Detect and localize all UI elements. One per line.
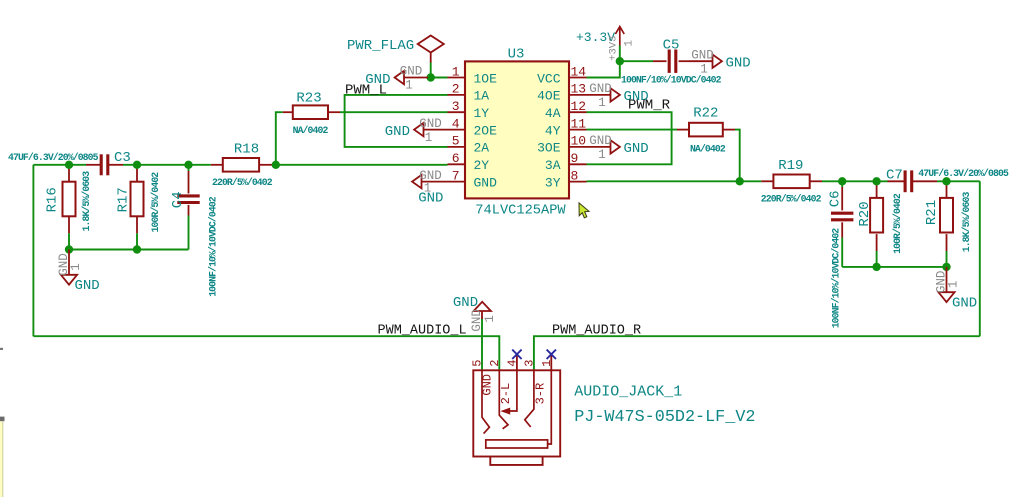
jack sleeve bar <box>486 440 548 448</box>
svg-text:220R/5%/0402: 220R/5%/0402 <box>761 194 822 205</box>
resistor R16 <box>63 182 76 217</box>
svg-text:2-L: 2-L <box>499 383 513 405</box>
svg-text:8: 8 <box>571 168 579 183</box>
U3 pin 2 stub <box>448 94 466 96</box>
junction C3/R16 <box>65 161 73 169</box>
svg-text:R19: R19 <box>778 158 803 174</box>
wire R16 bottom lead <box>68 216 70 233</box>
U3 pin 10 stub <box>569 146 587 148</box>
junction R21 gnd <box>942 263 950 271</box>
resistor R18 <box>223 158 259 172</box>
svg-text:3: 3 <box>452 99 460 114</box>
wire left gnd bus <box>69 249 189 251</box>
ground symbol left bus <box>68 250 70 275</box>
svg-text:100R/5%/0402: 100R/5%/0402 <box>150 172 161 233</box>
svg-text:R22: R22 <box>693 105 718 121</box>
wire C6 branch top <box>841 181 843 187</box>
junction pin1 gnd <box>427 73 435 81</box>
jack switch contact pin4 with arrow <box>510 370 517 411</box>
svg-text:1: 1 <box>425 131 433 145</box>
svg-text:47UF/6.3V/20%/0805: 47UF/6.3V/20%/0805 <box>8 152 99 163</box>
svg-text:GND: GND <box>589 82 612 96</box>
junction C6 top <box>838 177 846 185</box>
svg-text:1OE: 1OE <box>474 71 498 86</box>
svg-text:GND: GND <box>75 278 100 294</box>
svg-text:220R/5%/0402: 220R/5%/0402 <box>212 177 273 188</box>
capacitor C5 <box>668 50 671 73</box>
junction R23/R18 <box>272 161 280 169</box>
svg-text:1Y: 1Y <box>474 106 490 121</box>
ground symbol pin7 <box>422 181 448 183</box>
U3 pin 13 stub <box>569 94 587 96</box>
wire PWM_AUDIO_R run <box>534 336 980 370</box>
U3 pin 1 stub <box>448 77 466 79</box>
svg-text:4OE: 4OE <box>537 89 561 104</box>
svg-text:11: 11 <box>571 116 587 131</box>
ground symbol jack pin5 <box>474 302 491 311</box>
power flag PWR_FLAG <box>418 36 444 53</box>
wire R21 top lead <box>946 181 948 198</box>
capacitor C3 <box>100 154 103 175</box>
svg-text:NA/0402: NA/0402 <box>293 125 329 136</box>
wire VCC pin14 to +3.3V <box>587 61 620 77</box>
svg-text:R21: R21 <box>924 200 940 225</box>
wire PWM_AUDIO_L run <box>33 336 499 370</box>
svg-text:13: 13 <box>571 82 587 97</box>
resistor R23 <box>293 105 328 119</box>
wire pin8 to R19 <box>587 180 762 182</box>
svg-text:1: 1 <box>452 64 460 79</box>
wire C5 to GND <box>679 60 689 62</box>
junction C4 top <box>184 161 192 169</box>
svg-text:GND: GND <box>365 72 390 88</box>
wire C3 to R18 <box>109 164 123 166</box>
wire R20 top lead <box>876 181 878 198</box>
ground symbol pin13 <box>587 94 611 96</box>
junction R16 gnd <box>65 245 73 253</box>
svg-text:PWM_AUDIO_L: PWM_AUDIO_L <box>378 324 467 339</box>
svg-text:C3: C3 <box>114 150 131 166</box>
svg-text:1.8K/5%/0603: 1.8K/5%/0603 <box>81 171 92 232</box>
svg-text:R16: R16 <box>45 187 61 212</box>
svg-text:C4: C4 <box>170 191 186 208</box>
svg-text:4: 4 <box>505 360 519 367</box>
svg-text:4Y: 4Y <box>545 123 561 138</box>
ground symbol pin1 <box>404 77 428 79</box>
wire C4 bottom lead <box>188 205 190 216</box>
svg-text:9: 9 <box>571 151 579 166</box>
junction R17 top <box>133 161 141 169</box>
svg-text:PWR_FLAG: PWR_FLAG <box>347 38 414 54</box>
svg-text:4A: 4A <box>545 106 561 121</box>
svg-text:1: 1 <box>624 40 636 47</box>
svg-text:C7: C7 <box>886 167 903 183</box>
U3 pin 4 stub <box>448 129 466 131</box>
svg-text:47UF/6.3V/20%/0805: 47UF/6.3V/20%/0805 <box>918 168 1009 179</box>
wire R20 bottom lead <box>876 234 878 251</box>
svg-text:GND: GND <box>474 175 498 190</box>
svg-text:10: 10 <box>571 134 587 149</box>
svg-text:R17: R17 <box>116 187 132 212</box>
svg-text:GND: GND <box>418 191 443 207</box>
resistor R17 <box>131 182 144 217</box>
edge artifact mark 2 <box>0 417 5 422</box>
svg-text:1A: 1A <box>474 89 490 104</box>
svg-text:1: 1 <box>69 263 83 271</box>
wire R21 bottom lead <box>946 234 948 251</box>
connector J jack body <box>473 370 560 456</box>
resistor R20 <box>870 198 883 233</box>
capacitor C6 <box>831 212 853 215</box>
svg-text:1: 1 <box>598 96 606 110</box>
svg-text:PWM_AUDIO_R: PWM_AUDIO_R <box>552 324 641 339</box>
junction R20 gnd <box>872 263 880 271</box>
svg-text:3Y: 3Y <box>545 175 561 190</box>
svg-text:C6: C6 <box>827 190 843 207</box>
jack tip lever pin2 <box>499 370 508 429</box>
svg-text:3: 3 <box>522 360 536 367</box>
U3 pin 5 stub <box>448 146 466 148</box>
svg-text:GND: GND <box>726 56 751 72</box>
wire PWM_L net pin2-pin5 <box>345 95 448 147</box>
svg-text:GND: GND <box>691 48 714 62</box>
jack pin1 internal link <box>548 370 552 444</box>
capacitor C7 <box>904 170 907 192</box>
svg-text:+3V3: +3V3 <box>608 36 620 61</box>
wire pin1 to GND junction <box>428 77 448 79</box>
svg-text:3A: 3A <box>545 158 561 173</box>
svg-text:1.8K/5%/0603: 1.8K/5%/0603 <box>961 192 972 253</box>
power symbol +3.3V <box>619 46 621 62</box>
svg-text:VCC: VCC <box>537 71 561 86</box>
svg-text:100NF/10%/10VDC/0402: 100NF/10%/10VDC/0402 <box>208 196 219 297</box>
svg-text:2A: 2A <box>474 141 490 156</box>
junction +3.3V <box>616 57 624 65</box>
svg-text:GND: GND <box>470 309 484 332</box>
resistor R21 <box>940 198 953 233</box>
junction R17 gnd <box>133 245 141 253</box>
svg-text:12: 12 <box>571 99 587 114</box>
jack pin 4 <box>516 354 518 370</box>
junction R22/pin8 <box>736 177 744 185</box>
svg-text:2: 2 <box>488 360 502 367</box>
svg-text:GND: GND <box>589 134 612 148</box>
svg-text:5: 5 <box>471 360 485 367</box>
svg-text:PJ-W47S-05D2-LF_V2: PJ-W47S-05D2-LF_V2 <box>574 408 755 427</box>
op-amp U3 74LVC125APW body <box>465 61 569 198</box>
U3 pin 3 stub <box>448 111 466 113</box>
ground symbol right bus <box>946 267 948 292</box>
svg-text:PWM_R: PWM_R <box>628 97 671 113</box>
svg-text:4: 4 <box>452 116 460 131</box>
wire R16 top lead <box>68 165 70 182</box>
U3 pin 12 stub <box>569 111 587 113</box>
svg-text:U3: U3 <box>508 47 525 63</box>
wire R17 bottom lead <box>136 216 138 233</box>
capacitor C4 <box>177 194 199 197</box>
resistor R19 <box>773 175 809 189</box>
U3 pin 6 stub <box>448 163 466 165</box>
svg-text:2Y: 2Y <box>474 158 490 173</box>
wire jack pin5 gnd drop <box>481 318 483 371</box>
svg-text:R20: R20 <box>857 201 873 226</box>
ground symbol pin4 <box>424 129 448 131</box>
wire R23 to U3 pin 3 <box>328 111 340 113</box>
wire R22 to pin8 net <box>723 129 735 131</box>
svg-text:1: 1 <box>598 148 606 162</box>
svg-text:1: 1 <box>540 360 554 367</box>
svg-text:R18: R18 <box>234 142 259 158</box>
svg-text:1: 1 <box>405 79 413 93</box>
svg-text:6: 6 <box>452 151 460 166</box>
ground symbol C5 <box>689 60 713 62</box>
svg-text:74LVC125APW: 74LVC125APW <box>475 203 566 218</box>
svg-text:R23: R23 <box>296 91 321 107</box>
svg-text:C5: C5 <box>663 38 680 54</box>
svg-text:AUDIO_JACK_1: AUDIO_JACK_1 <box>574 383 682 400</box>
U3 pin 7 stub <box>448 181 466 183</box>
no-connect X pin 4 <box>512 350 521 359</box>
wire left vertical bus <box>32 165 34 336</box>
junction R20 top <box>872 177 880 185</box>
wire C7 right to corner <box>912 180 937 182</box>
svg-text:GND: GND <box>952 296 977 312</box>
ground symbol pin10 <box>587 146 611 148</box>
junction R21 top <box>942 177 950 185</box>
jack ring lever pin3 <box>525 370 534 427</box>
resistor R22 <box>689 123 723 137</box>
svg-text:1: 1 <box>700 62 708 76</box>
svg-text:100R/5%/0402: 100R/5%/0402 <box>892 193 903 254</box>
wire right vertical drop <box>979 181 981 336</box>
wire R19 to C7 <box>810 180 822 182</box>
wire PWM_R net pin12-pin9 <box>587 112 672 164</box>
wire PWR_FLAG stem lower <box>430 63 432 78</box>
svg-text:3OE: 3OE <box>537 141 561 156</box>
wire C6 branch bottom <box>841 222 843 237</box>
svg-text:GND: GND <box>453 295 478 311</box>
wire R18 to U3 pin 6 <box>259 164 272 166</box>
svg-text:5: 5 <box>452 134 460 149</box>
svg-text:NA/0402: NA/0402 <box>690 143 726 154</box>
no-connect X pin 1 <box>547 350 556 359</box>
U3 pin 9 stub <box>569 163 587 165</box>
jack sleeve contact pin5 <box>482 370 489 433</box>
wire C3 row left <box>33 164 86 166</box>
wire pin11 to R22 <box>587 129 678 131</box>
wire C4 top lead <box>188 165 190 171</box>
edge artifact mark 1 <box>0 348 3 350</box>
svg-text:7: 7 <box>452 168 460 183</box>
U3 pin 14 stub <box>569 77 587 79</box>
mouse cursor <box>579 203 589 218</box>
svg-text:2: 2 <box>452 82 460 97</box>
jack bottom tab <box>490 457 542 465</box>
svg-text:GND: GND <box>624 141 649 157</box>
svg-text:3-R: 3-R <box>534 383 548 405</box>
edge artifact yellow sliver <box>0 422 3 497</box>
svg-text:1: 1 <box>947 281 961 289</box>
wire +3.3V to C5 <box>620 60 653 62</box>
svg-text:1: 1 <box>483 315 497 323</box>
U3 pin 11 stub <box>569 129 587 131</box>
wire right gnd bus <box>842 266 946 268</box>
jack pin 1 <box>550 354 552 370</box>
wire R23 branch vertical <box>276 112 283 165</box>
svg-text:14: 14 <box>571 64 587 79</box>
wire R17 top lead <box>136 165 138 182</box>
svg-text:GND: GND <box>419 117 442 131</box>
svg-text:100NF/10%/10VDC/0402: 100NF/10%/10VDC/0402 <box>830 228 841 329</box>
svg-text:GND: GND <box>385 124 410 140</box>
U3 pin 8 stub <box>569 181 587 183</box>
svg-text:2OE: 2OE <box>474 123 498 138</box>
svg-text:GND: GND <box>400 65 423 79</box>
